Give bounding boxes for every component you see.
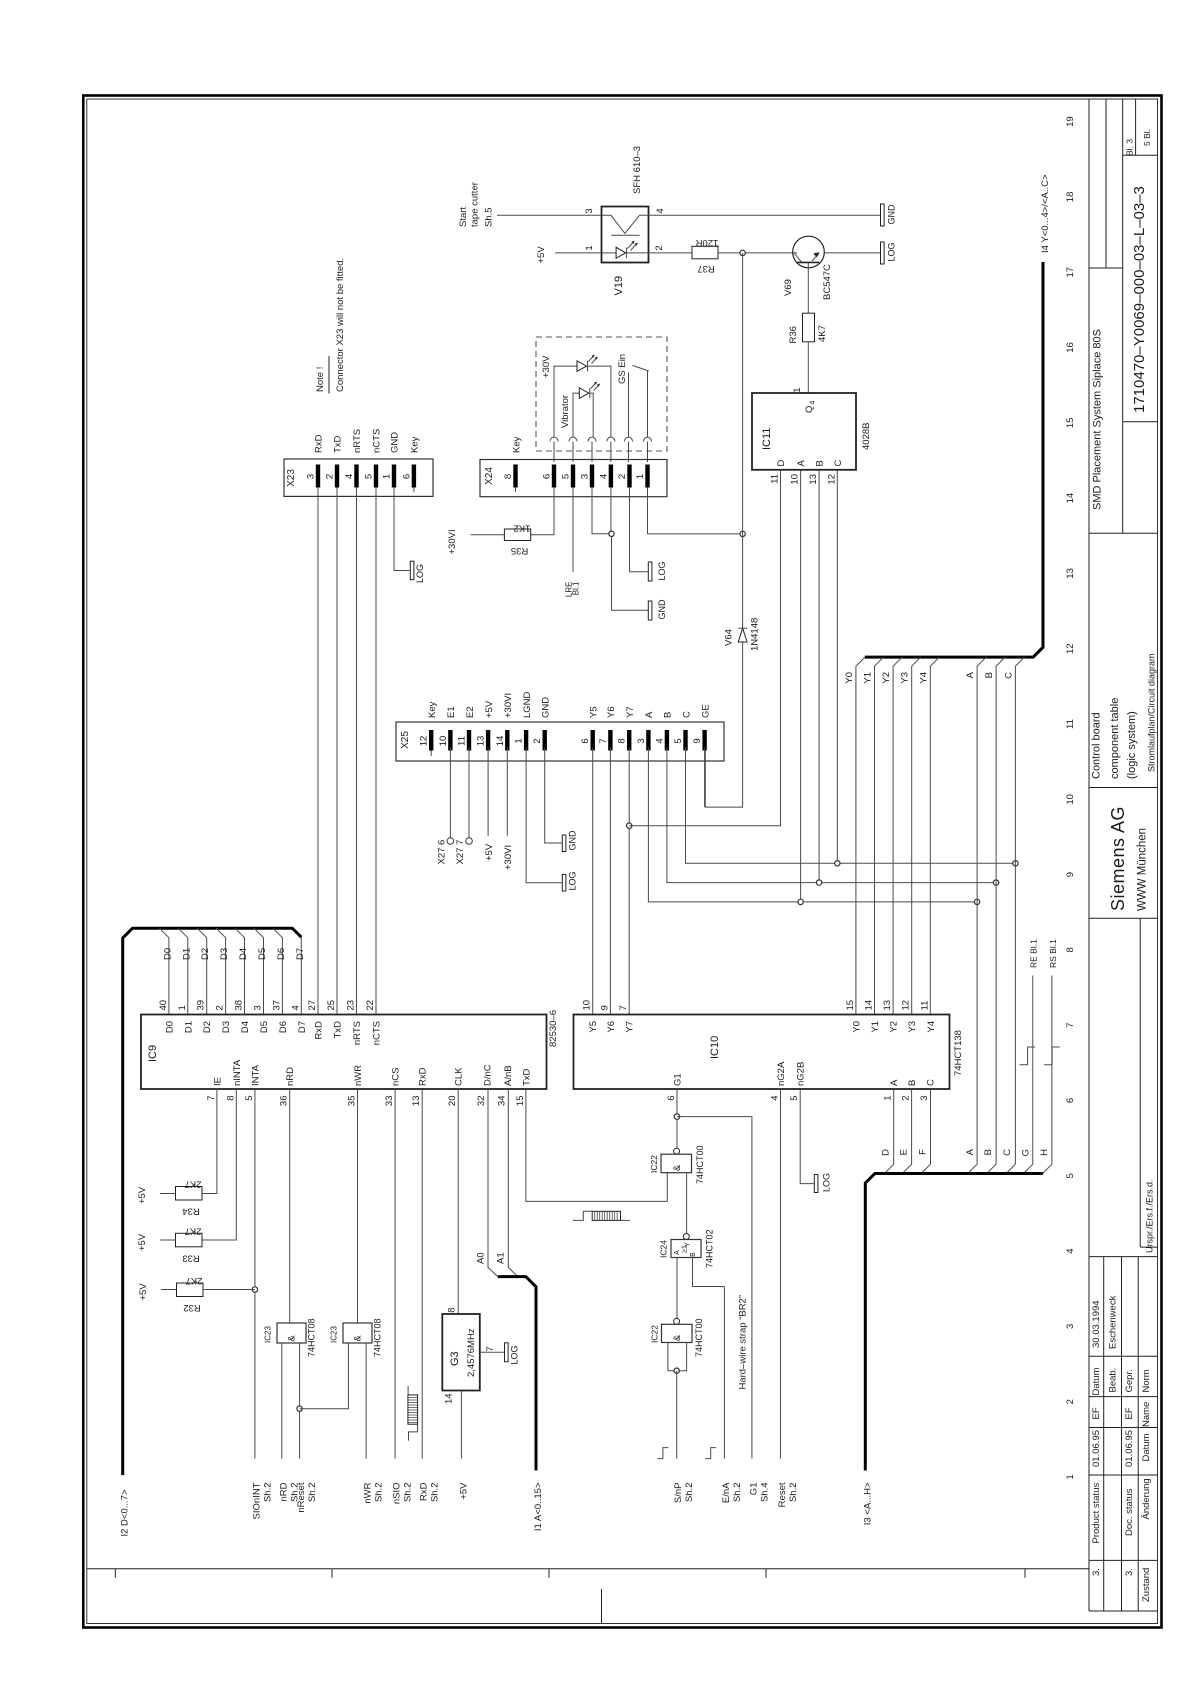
wire IC23b output to nWR flag	[365, 1343, 367, 1459]
svg-text:3: 3	[1065, 1324, 1076, 1329]
svg-text:74HCT08: 74HCT08	[373, 1318, 383, 1357]
step glyph RE	[1020, 1047, 1036, 1065]
wire IC9 RxD to RxD flag	[421, 1089, 423, 1459]
net labels A B C G H lower	[965, 1148, 1050, 1156]
svg-text:IC23: IC23	[264, 1326, 273, 1343]
svg-text:E2: E2	[465, 706, 476, 718]
svg-text:tape cutter: tape cutter	[470, 182, 481, 227]
wire X25 pin1 LGND to LOG	[526, 748, 562, 883]
svg-text:5: 5	[364, 474, 375, 479]
svg-text:01.06.95: 01.06.95	[1124, 1430, 1135, 1467]
net labels D0-D7	[162, 948, 305, 960]
svg-text:B: B	[984, 672, 995, 678]
svg-text:7: 7	[598, 738, 609, 743]
flag nRD Sh.2	[278, 1482, 300, 1502]
svg-text:15: 15	[845, 1000, 856, 1011]
wire IC11 B to B net	[818, 470, 820, 883]
svg-text:X25: X25	[400, 731, 411, 749]
svg-text:D5: D5	[259, 1021, 270, 1033]
svg-text:11: 11	[770, 474, 781, 484]
svg-text:4: 4	[654, 738, 665, 743]
svg-text:&: &	[353, 1335, 364, 1342]
wire IC9 nWR to IC23b input	[357, 1089, 359, 1323]
svg-text:6: 6	[542, 474, 553, 479]
svg-text:nG2A: nG2A	[776, 1061, 787, 1086]
svg-text:C: C	[833, 460, 844, 467]
flag S/nP Sh.2	[673, 1483, 695, 1504]
wire +5V to V19 pin1	[555, 252, 602, 254]
svg-text:12: 12	[901, 1000, 912, 1011]
wire X23 nRTS to IC9 pin23	[356, 496, 358, 1014]
bus I2 D<0..7>	[120, 928, 302, 1536]
wire X24 pin5 to LRE flag	[572, 497, 574, 572]
svg-text:Key: Key	[512, 436, 523, 453]
svg-text:SIOnINT: SIOnINT	[251, 1482, 262, 1519]
wire V19 pin2 to R37	[649, 252, 693, 254]
svg-text:27: 27	[307, 1000, 318, 1011]
svg-text:A: A	[965, 1148, 976, 1155]
svg-text:C: C	[926, 1079, 937, 1086]
svg-text:Gepr.: Gepr.	[1124, 1369, 1135, 1392]
net labels D E F	[881, 1149, 929, 1156]
LED circuit 2	[573, 382, 600, 438]
LED circuit 1 (Vibrator)	[554, 355, 611, 438]
svg-text:D0: D0	[164, 1021, 175, 1033]
svg-text:15: 15	[1065, 418, 1076, 429]
svg-text:C: C	[1002, 1149, 1013, 1156]
svg-text:1: 1	[1065, 1474, 1076, 1479]
wire X24 pin2 to LOG	[630, 497, 649, 572]
svg-text:Connector X23 will not be fitt: Connector X23 will not be fitted.	[335, 258, 346, 392]
pin numbers IC10 top	[582, 1000, 931, 1011]
svg-text:Start: Start	[458, 207, 469, 227]
svg-text:5: 5	[561, 474, 572, 479]
svg-text:1K2: 1K2	[514, 523, 531, 534]
svg-text:G3: G3	[449, 1351, 461, 1366]
wire G3 pin14 to +5V flag	[460, 1391, 462, 1459]
wire IC22b inputs U loop	[668, 1343, 687, 1371]
svg-text:A: A	[965, 671, 976, 678]
svg-text:8: 8	[1065, 947, 1076, 952]
svg-text:3: 3	[253, 1005, 264, 1010]
svg-text:D6: D6	[278, 1021, 289, 1033]
svg-text:13: 13	[1065, 568, 1076, 579]
svg-text:11: 11	[1065, 719, 1076, 729]
bus entries A B C G H lower	[968, 1164, 977, 1173]
svg-text:D5: D5	[257, 948, 268, 960]
pin numbers IC9 top	[158, 1000, 376, 1011]
svg-text:3: 3	[636, 738, 647, 743]
svg-text:9: 9	[692, 738, 703, 743]
wire IC23a output to nRD flag	[281, 1343, 283, 1459]
svg-text:Eschenweck: Eschenweck	[1108, 1295, 1119, 1349]
flag SIOnINT Sh.2	[251, 1482, 273, 1519]
bus I1 A<0..15>	[498, 1277, 544, 1532]
svg-text:74HCT00: 74HCT00	[694, 1318, 704, 1357]
svg-text:13: 13	[476, 736, 487, 747]
dashed option box	[536, 337, 667, 451]
wire X25 pin11 E2 to X27_7	[468, 748, 470, 838]
bus entry B	[996, 657, 1005, 1164]
svg-text:I4 Y<0...4>/<A..C>: I4 Y<0...4>/<A..C>	[1040, 174, 1051, 253]
wire IC9 DnC to A0	[488, 1089, 498, 1277]
wire IC9 IEI to R34	[202, 1089, 217, 1194]
svg-text:IE: IE	[212, 1077, 223, 1086]
svg-text:33: 33	[384, 1096, 395, 1107]
svg-text:Sh.2: Sh.2	[788, 1483, 799, 1503]
AND gate IC23b 74HCT08	[330, 1318, 383, 1357]
svg-text:nSIO: nSIO	[392, 1483, 403, 1505]
svg-text:D3: D3	[219, 948, 230, 960]
svg-text:IC10: IC10	[709, 1036, 721, 1059]
svg-text:RxD: RxD	[418, 1067, 429, 1086]
svg-text:GND: GND	[390, 432, 401, 453]
wire X23 GND to LOG	[394, 496, 410, 570]
margin ticks	[115, 1569, 1025, 1578]
svg-text:B: B	[663, 712, 674, 718]
wire E/nA strap to flag	[723, 1287, 725, 1459]
ground GND top right	[881, 204, 897, 226]
wire IC10 nG2B to LOG	[800, 1089, 814, 1184]
AND gate IC23a 74HCT08	[264, 1318, 317, 1357]
wire IC9 AnB to A1	[508, 1089, 518, 1277]
terminal X27 6	[437, 838, 454, 865]
NAND gate IC22b 74HCT00	[650, 1318, 705, 1357]
svg-text:4: 4	[598, 474, 609, 479]
burst glyph at TxD	[573, 1211, 630, 1220]
svg-text:Hard–wire strap “BR2”: Hard–wire strap “BR2”	[738, 1295, 749, 1390]
svg-text:INTA: INTA	[250, 1064, 261, 1086]
svg-text:&: &	[672, 1164, 683, 1171]
svg-text:EF: EF	[1091, 1407, 1102, 1419]
margin line	[87, 1568, 1089, 1570]
svg-text:4: 4	[770, 1096, 781, 1101]
svg-text:(logic system): (logic system)	[1126, 711, 1138, 779]
wire IC9 CLK to G3	[457, 1089, 459, 1314]
wire X25 pin5 C net	[686, 748, 1016, 864]
resistor R34 2K7	[176, 1179, 203, 1217]
svg-text:D: D	[881, 1149, 892, 1156]
svg-text:Control board: Control board	[1091, 712, 1103, 779]
title block lines	[1089, 99, 1158, 1611]
svg-text:IC23: IC23	[330, 1326, 339, 1343]
svg-text:Datum: Datum	[1091, 1367, 1102, 1395]
node IC11 A	[798, 899, 803, 904]
svg-text:H: H	[1039, 1149, 1050, 1156]
svg-text:Y0: Y0	[844, 672, 855, 684]
svg-text:7: 7	[206, 1096, 217, 1101]
svg-text:D7: D7	[297, 1021, 308, 1033]
svg-text:Q: Q	[804, 406, 815, 413]
svg-text:GS Ein: GS Ein	[617, 354, 628, 384]
svg-text:Key: Key	[409, 436, 420, 453]
svg-text:V64: V64	[724, 629, 735, 646]
svg-text:6: 6	[580, 738, 591, 743]
node IC11 C	[835, 861, 840, 866]
svg-text:C: C	[1003, 672, 1014, 679]
bus I3 <A...H>	[862, 1174, 1043, 1526]
wire start tape cutter to V19 pin3	[497, 214, 602, 216]
svg-text:1: 1	[792, 388, 803, 393]
svg-text:5: 5	[1065, 1173, 1076, 1178]
wire IC9 nRD to IC23a input	[289, 1089, 291, 1323]
svg-text:2K7: 2K7	[185, 1179, 202, 1190]
svg-text:2: 2	[654, 245, 665, 250]
svg-text:34: 34	[496, 1096, 507, 1107]
svg-text:+30VI: +30VI	[503, 693, 514, 718]
svg-text:39: 39	[196, 1000, 207, 1011]
bus entry D3	[216, 928, 226, 1014]
svg-text:F: F	[918, 1149, 929, 1155]
svg-text:Y4: Y4	[926, 1021, 937, 1033]
svg-text:TxD: TxD	[333, 435, 344, 453]
bus entry D5	[254, 928, 264, 1014]
ground LOG at G3	[505, 1343, 520, 1365]
ground LOG right of V69	[881, 242, 897, 264]
bus entry Y3	[912, 657, 921, 1014]
svg-text:14: 14	[495, 736, 506, 747]
wire R32 to INTA line	[203, 1289, 255, 1291]
pin numbers IC10 bottom	[666, 1096, 930, 1101]
wire S/nP flag line	[676, 1371, 678, 1459]
resistor R35 1K2	[504, 523, 530, 557]
svg-text:Y3: Y3	[907, 1021, 918, 1033]
svg-text:74HCT138: 74HCT138	[953, 1030, 964, 1076]
svg-text:I3 <A...H>: I3 <A...H>	[862, 1482, 873, 1525]
svg-text:A1: A1	[496, 1252, 507, 1264]
wire X25 pin8 Y7 to IC10 pin7	[628, 748, 630, 1015]
bus entry D1	[178, 928, 188, 1014]
svg-text:74HCT08: 74HCT08	[307, 1318, 317, 1357]
svg-text:D/nC: D/nC	[483, 1064, 494, 1086]
flag RS Bl.1	[1048, 939, 1058, 1164]
svg-text:G1: G1	[748, 1483, 759, 1496]
svg-text:2K7: 2K7	[185, 1226, 202, 1237]
switch GS Ein	[629, 365, 649, 437]
svg-text:1N4148: 1N4148	[750, 618, 761, 651]
flag G1 Sh.4	[748, 1483, 770, 1503]
node IC11 B	[816, 880, 821, 885]
connector X25	[396, 691, 724, 761]
svg-text:+5V: +5V	[536, 246, 547, 264]
svg-text:38: 38	[234, 1000, 245, 1011]
svg-text:10: 10	[438, 736, 449, 747]
svg-text:2,4576MHz: 2,4576MHz	[466, 1328, 477, 1377]
svg-text:C: C	[681, 711, 692, 718]
wire IC23a input2 to nReset flag	[299, 1343, 301, 1459]
svg-text:2: 2	[215, 1005, 226, 1010]
svg-text:X24: X24	[484, 467, 495, 485]
svg-text:TxD: TxD	[521, 1068, 532, 1086]
svg-text:Sh.2: Sh.2	[262, 1483, 273, 1503]
svg-text:Siemens AG: Siemens AG	[1108, 806, 1128, 911]
wire X24 pin4 to GND	[611, 497, 648, 611]
svg-text:6: 6	[1065, 1098, 1076, 1103]
ground GND below X24	[648, 599, 667, 620]
svg-text:A: A	[644, 711, 655, 718]
wire IC24 A to IC22b output	[676, 1258, 678, 1319]
wire IC11 D to Y7	[629, 470, 780, 826]
svg-text:G1: G1	[673, 1073, 684, 1086]
label Start tape cutter Sh.5	[458, 182, 495, 227]
svg-text:Y3: Y3	[900, 672, 911, 684]
svg-text:+5V: +5V	[137, 1186, 148, 1204]
svg-text:+30VI: +30VI	[447, 529, 458, 554]
svg-text:1: 1	[514, 738, 525, 743]
svg-text:18: 18	[1065, 192, 1076, 203]
IC11 4028B	[752, 388, 872, 485]
svg-text:6: 6	[401, 474, 412, 479]
svg-text:A: A	[674, 1250, 681, 1255]
svg-text:R36: R36	[788, 326, 799, 343]
wire R37 to V69 base node	[718, 252, 797, 254]
svg-text:Sh.2: Sh.2	[374, 1483, 385, 1503]
crystal oscillator G3 2.4576MHz	[442, 1308, 496, 1405]
svg-text:8: 8	[617, 738, 628, 743]
wire X25 pin4 B net	[667, 748, 996, 883]
svg-text:D4: D4	[240, 1021, 251, 1033]
svg-text:Y2: Y2	[881, 672, 892, 684]
svg-text:Y6: Y6	[606, 706, 617, 718]
svg-text:BC547C: BC547C	[822, 264, 833, 300]
svg-text:9: 9	[599, 1005, 610, 1010]
svg-text:3: 3	[919, 1096, 930, 1101]
wire X23 TxD to IC9 pin25	[336, 496, 338, 1014]
wire IC10 C to F entry	[921, 1089, 930, 1174]
wire IC10 nG2A to Reset flag	[780, 1089, 782, 1459]
svg-text:5 Bl.: 5 Bl.	[1142, 129, 1152, 146]
bus entry Y0	[856, 657, 865, 1014]
svg-text:Y7: Y7	[625, 706, 636, 718]
svg-text:R35: R35	[511, 545, 528, 556]
svg-text:3: 3	[584, 208, 595, 213]
node S/nP	[674, 1368, 679, 1373]
svg-text:Y0: Y0	[851, 1021, 862, 1033]
svg-text:&: &	[287, 1335, 298, 1342]
svg-text:nG2B: nG2B	[796, 1062, 807, 1086]
fold mark	[601, 1589, 603, 1623]
node A net right	[974, 899, 979, 904]
svg-text:R32: R32	[183, 1302, 200, 1313]
svg-text:82530–6: 82530–6	[548, 1010, 559, 1047]
svg-text:25: 25	[326, 1000, 337, 1011]
svg-text:14: 14	[1065, 493, 1076, 504]
svg-text:D: D	[776, 460, 787, 467]
svg-text:Sh.2: Sh.2	[732, 1483, 743, 1503]
wire IC9 INTA to SIOnINT flag	[254, 1089, 256, 1459]
svg-text:X27 6: X27 6	[437, 840, 448, 865]
title block texts	[1091, 129, 1157, 1253]
NAND gate IC22a 74HCT00	[649, 1145, 705, 1184]
svg-text:1710470–Y0069–000–03–L–03–3: 1710470–Y0069–000–03–L–03–3	[1131, 186, 1148, 413]
node Y7 / IC11 D link	[627, 823, 632, 828]
svg-text:8: 8	[225, 1096, 236, 1101]
svg-text:12: 12	[419, 736, 430, 747]
bus entry D4	[235, 928, 245, 1014]
svg-text:13: 13	[411, 1096, 422, 1107]
svg-text:20: 20	[447, 1096, 458, 1107]
svg-text:GE: GE	[700, 704, 711, 718]
svg-text:Y6: Y6	[606, 1021, 617, 1033]
svg-text:6: 6	[666, 1096, 677, 1101]
resistor R33 2K7	[176, 1226, 203, 1264]
wire +5V to R34	[160, 1193, 176, 1195]
wire IC10 A to D entry	[884, 1089, 893, 1174]
wire IC24 B to E/nA strap	[693, 1258, 725, 1287]
svg-text:Sh.2: Sh.2	[307, 1483, 318, 1503]
svg-text:74HCT02: 74HCT02	[705, 1229, 715, 1268]
svg-text:+30VI: +30VI	[503, 845, 514, 870]
svg-text:22: 22	[365, 1000, 376, 1011]
svg-text:R34: R34	[182, 1206, 199, 1217]
svg-text:Norm: Norm	[1141, 1369, 1152, 1392]
svg-text:Doc. status: Doc. status	[1124, 1488, 1135, 1536]
flag nWR Sh.2	[363, 1482, 385, 1503]
svg-text:Y7: Y7	[625, 1021, 636, 1033]
svg-text:Y1: Y1	[863, 672, 874, 684]
svg-text:D0: D0	[162, 948, 173, 960]
wire IC9 TxD to IC22a	[526, 1089, 667, 1201]
flag RE Bl.1	[1029, 939, 1039, 1164]
svg-text:IC24: IC24	[659, 1240, 669, 1258]
svg-text:R37: R37	[697, 263, 714, 274]
svg-text:nRTS: nRTS	[352, 429, 363, 453]
revision table	[1089, 1257, 1158, 1611]
svg-text:Sh.2: Sh.2	[684, 1483, 695, 1503]
note text	[315, 258, 346, 394]
svg-text:4K7: 4K7	[817, 325, 828, 342]
svg-text:7: 7	[1065, 1023, 1076, 1028]
wire V64 line (node to GE hook)	[705, 253, 742, 807]
node C net right	[1013, 861, 1018, 866]
wire +5V to R32	[161, 1289, 177, 1291]
wire X24 pin3 to pin4 node	[592, 497, 612, 534]
svg-text:GND: GND	[887, 204, 897, 225]
svg-text:5: 5	[244, 1096, 255, 1101]
bus entry D6	[273, 928, 283, 1014]
node nReset	[297, 1406, 302, 1411]
transistor V69 BC547C	[783, 236, 833, 300]
wire IC22a input2 to IC24 output	[686, 1173, 688, 1234]
step glyph E/nA	[705, 1448, 716, 1459]
svg-text:Sh.4: Sh.4	[759, 1483, 770, 1503]
svg-text:GND: GND	[541, 697, 552, 718]
flag E/nA Sh.2	[721, 1482, 743, 1503]
svg-text:1: 1	[882, 1096, 893, 1101]
node R32/INTA	[252, 1287, 257, 1292]
svg-text:Note !: Note !	[315, 367, 326, 392]
wire X25 pin6 Y5 to IC10 pin10	[592, 748, 594, 1015]
wire V69 emitter to LOG	[824, 252, 880, 254]
svg-text:7: 7	[485, 1347, 496, 1352]
svg-text:nRTS: nRTS	[352, 1021, 363, 1045]
svg-text:Beab.: Beab.	[1108, 1368, 1119, 1393]
node V64 line top	[740, 531, 745, 536]
svg-text:A0: A0	[476, 1252, 487, 1264]
svg-text:nINTA: nINTA	[232, 1059, 243, 1086]
wire X25 pin2 GND to GND	[545, 748, 562, 844]
svg-text:23: 23	[346, 1000, 357, 1011]
svg-text:LOG: LOG	[415, 564, 425, 583]
wire V19 pin4 to GND	[649, 214, 881, 216]
svg-text:4: 4	[655, 208, 666, 213]
svg-text:LOG: LOG	[822, 1173, 832, 1192]
wire V69 base to R36	[807, 262, 809, 313]
svg-text:4: 4	[344, 474, 355, 479]
svg-text:4028B: 4028B	[861, 423, 872, 450]
svg-text:74HCT00: 74HCT00	[695, 1145, 705, 1184]
net labels Y0-Y4 upper	[844, 671, 1015, 683]
